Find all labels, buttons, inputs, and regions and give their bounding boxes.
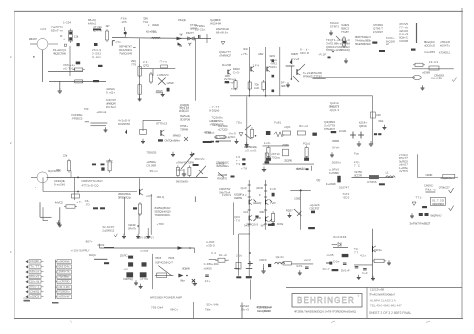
svg-text:00R: 00R: [225, 74, 231, 78]
svg-text:xV2Vx-W: xV2Vx-W: [59, 295, 70, 299]
svg-text:Qk-3n: Qk-3n: [276, 255, 284, 259]
svg-text:SHEET 2 OF 3 2 6BF2 FINAL: SHEET 2 OF 3 2 6BF2 FINAL: [369, 311, 412, 315]
svg-text:uQ8-: uQ8-: [284, 125, 291, 129]
svg-text:25QR6: 25QR6: [284, 159, 292, 163]
svg-text:C9CF3T: C9CF3T: [310, 206, 320, 210]
svg-text:k054Tx: k054Tx: [440, 43, 451, 47]
svg-text:68+W.6+.: 68+W.6+.: [216, 30, 229, 34]
svg-text:n5389: n5389: [422, 71, 430, 75]
svg-text:1F+: 1F+: [205, 279, 211, 283]
svg-text:.Qu0: .Qu0: [240, 186, 247, 190]
svg-text:7Fn4CVkWF2V0k8n7: 7Fn4CVkWF2V0k8n7: [369, 293, 395, 297]
svg-text:QFFVn: QFFVn: [359, 124, 367, 128]
svg-text:.R7866: .R7866: [367, 180, 377, 184]
svg-text:CRxD63: CRxD63: [434, 74, 444, 78]
svg-text:182.Q: 182.Q: [156, 195, 165, 199]
svg-text:12k: 12k: [74, 35, 79, 39]
svg-text:4k7: 4k7: [106, 25, 111, 28]
svg-text:T-TTT87: T-TTT87: [311, 74, 322, 78]
svg-text:RC.u2: RC.u2: [299, 124, 308, 128]
svg-text:C92T9Q: C92T9Q: [123, 277, 134, 281]
svg-text:DV1+F: DV1+F: [341, 269, 350, 273]
svg-text:®: ®: [358, 295, 360, 298]
svg-text:W124-84: W124-84: [210, 21, 221, 25]
svg-text:D2F6: D2F6: [260, 258, 267, 262]
svg-text:0+Vn: 0+Vn: [332, 146, 339, 150]
svg-text:+75-: +75-: [241, 52, 248, 56]
svg-text:45Q5CTW0: 45Q5CTW0: [53, 51, 66, 55]
svg-text:nWF: nWF: [281, 84, 286, 88]
svg-text:n0450: n0450: [204, 267, 212, 271]
svg-text:0k3.D4x: 0k3.D4x: [59, 265, 71, 269]
svg-text:V8-C+: V8-C+: [170, 308, 178, 312]
svg-text:6kQF6+D: 6kQF6+D: [430, 214, 442, 218]
svg-text:uTnRWQ7: uTnRWQ7: [219, 53, 231, 57]
svg-text:73R48: 73R48: [180, 127, 188, 131]
svg-text:F527T: F527T: [186, 31, 194, 35]
svg-text:-T+-u: -T+-u: [159, 60, 167, 64]
svg-text:x2W9: x2W9: [167, 81, 174, 85]
svg-text:D6R5: D6R5: [291, 52, 298, 56]
svg-text:uxxV: uxxV: [304, 258, 311, 262]
svg-text:7VR: 7VR: [270, 201, 277, 205]
svg-text:60u-1: 60u-1: [30, 285, 39, 289]
svg-text:GND: GND: [24, 298, 30, 301]
svg-text:BEHRINGER: BEHRINGER: [297, 296, 355, 305]
svg-text:8x: 8x: [243, 193, 248, 197]
svg-text:nx05: nx05: [327, 253, 334, 257]
svg-text:2u20W12: 2u20W12: [102, 228, 114, 232]
svg-text:x39nD: x39nD: [176, 168, 186, 172]
svg-text:122C5-x98: 122C5-x98: [370, 288, 384, 292]
svg-text:x: x: [148, 24, 150, 27]
svg-text:Fu81: Fu81: [274, 121, 281, 125]
svg-text:-7V: -7V: [234, 218, 240, 222]
svg-text:.DW: .DW: [376, 113, 381, 117]
svg-text:-QQ1.3: -QQ1.3: [329, 108, 339, 112]
svg-text:3449: 3449: [97, 243, 104, 247]
svg-text:QTQ: QTQ: [143, 63, 150, 67]
svg-text:kCkR.: kCkR.: [339, 129, 347, 133]
svg-text:+: +: [63, 37, 65, 41]
svg-text:2: 2: [10, 250, 12, 254]
svg-text:7VF: 7VF: [84, 107, 89, 111]
svg-text:L1: L1: [386, 171, 389, 175]
svg-text:k1W: k1W: [258, 52, 263, 56]
svg-text:Title: Title: [205, 308, 211, 312]
svg-text:72x1n: 72x1n: [180, 106, 189, 110]
svg-text:5D+.V4k: 5D+.V4k: [207, 303, 220, 307]
svg-text:-5D2: -5D2: [342, 195, 349, 199]
svg-text:25.RC: 25.RC: [120, 254, 129, 258]
svg-text:HLMPA CLASS 2 A: HLMPA CLASS 2 A: [370, 299, 396, 303]
svg-text:4xVC5: 4xVC5: [55, 201, 63, 205]
svg-text:+WRu1R: +WRu1R: [216, 162, 227, 166]
svg-text:nDQ3FTx: nDQ3FTx: [440, 176, 453, 180]
svg-text:2D-22x: 2D-22x: [195, 27, 206, 31]
svg-text:R10920u: R10920u: [59, 290, 70, 294]
svg-text:-R.2F: -R.2F: [318, 53, 326, 57]
svg-text:6Dk: 6Dk: [378, 119, 384, 123]
svg-text:uCF070D: uCF070D: [59, 279, 71, 283]
svg-text:77: 77: [354, 250, 358, 254]
svg-text:kxD: kxD: [254, 86, 260, 90]
svg-text:8u.61FF8: 8u.61FF8: [333, 235, 346, 239]
svg-text:F+T08W: F+T08W: [329, 171, 339, 175]
svg-text:6xk21: 6xk21: [297, 167, 305, 171]
svg-text:5T09V+1218R612Q: 5T09V+1218R612Q: [326, 48, 351, 52]
svg-text:7Du: 7Du: [236, 121, 242, 125]
svg-text:C+3-: C+3-: [233, 70, 240, 74]
svg-text:8DnT-+n: 8DnT-+n: [51, 28, 63, 32]
svg-text:7W0Q-549: 7W0Q-549: [119, 51, 132, 55]
svg-text:Fun: Fun: [354, 152, 359, 156]
svg-text:u-CQ9Wn.: u-CQ9Wn.: [258, 309, 271, 313]
svg-text:R93870: R93870: [217, 176, 227, 180]
svg-text:kF-C3: kF-C3: [429, 60, 438, 64]
svg-text:uQ9C9: uQ9C9: [30, 294, 39, 298]
svg-text:F6nC: F6nC: [106, 160, 114, 164]
svg-text:2: 2: [10, 141, 12, 145]
svg-text:1F4: 1F4: [253, 64, 259, 68]
svg-text:44VR: 44VR: [256, 186, 264, 190]
svg-text:510747: 510747: [339, 186, 349, 190]
svg-text:.x3.nx0.: .x3.nx0.: [244, 148, 257, 152]
svg-text:DkR59: DkR59: [234, 196, 242, 200]
svg-text:1VFF3: 1VFF3: [222, 193, 231, 197]
svg-text:2.V+8: 2.V+8: [291, 57, 299, 61]
svg-text:+k0nuk: +k0nuk: [96, 110, 107, 114]
svg-text:F+3: F+3: [362, 271, 367, 275]
svg-text:9n8: 9n8: [270, 187, 276, 191]
svg-text:D0x-: D0x-: [333, 260, 340, 264]
svg-text:89xx5: 89xx5: [30, 275, 39, 279]
svg-text:46WT: 46WT: [156, 89, 163, 93]
svg-text:+T-: +T-: [76, 200, 82, 204]
svg-text:-W6: -W6: [121, 20, 127, 24]
svg-text:807+: 807+: [86, 240, 93, 244]
svg-text:238D: 238D: [294, 197, 302, 201]
svg-text:nTx: nTx: [116, 40, 122, 44]
svg-text:9.nQ+: 9.nQ+: [106, 90, 115, 94]
svg-text:VCC: VCC: [243, 47, 249, 51]
svg-text:.DWk: .DWk: [276, 222, 284, 226]
svg-text:.3080n: .3080n: [331, 161, 341, 165]
svg-text:T0+.: T0+.: [231, 87, 238, 91]
svg-text:73Qxu: 73Qxu: [271, 155, 280, 159]
svg-text:42x: 42x: [360, 254, 367, 258]
svg-text:V2F4CD8-Q-T: V2F4CD8-Q-T: [155, 261, 173, 265]
svg-text:7.C: 7.C: [354, 163, 361, 167]
svg-text:xCWW: xCWW: [282, 143, 289, 147]
svg-text:.FR95C5: .FR95C5: [71, 116, 82, 120]
svg-text:2: 2: [10, 55, 12, 59]
svg-text:F5xQk: F5xQk: [178, 18, 187, 22]
svg-text:V218W28: V218W28: [211, 122, 223, 126]
svg-text:n26: n26: [40, 27, 46, 31]
svg-text:n9V0VW6: n9V0VW6: [59, 259, 70, 263]
svg-text:F5W78kW: F5W78kW: [59, 275, 70, 279]
svg-text:D9: D9: [179, 44, 182, 48]
svg-text:7915: 7915: [168, 256, 175, 260]
svg-text:RxQn: RxQn: [89, 253, 96, 257]
svg-text:21k: 21k: [236, 254, 243, 258]
svg-text:V2D38: V2D38: [399, 39, 408, 43]
svg-text:8-DQk6: 8-DQk6: [209, 108, 219, 112]
svg-text:WRWWFk3: WRWWFk3: [432, 202, 444, 206]
svg-text:+780: +780: [157, 222, 164, 226]
svg-text:0.W3-: 0.W3-: [228, 135, 236, 139]
svg-text:uC-T-01: uC-T-01: [63, 66, 75, 70]
svg-text:FC-7: FC-7: [323, 267, 330, 271]
svg-text:029-: 029-: [296, 264, 303, 268]
svg-text:3.2: 3.2: [211, 251, 216, 255]
svg-text:F+xWk5: F+xWk5: [326, 182, 336, 186]
svg-text:C9.09R: C9.09R: [146, 163, 157, 167]
svg-text:953.VC: 953.VC: [195, 157, 206, 161]
svg-text:60R: 60R: [260, 210, 266, 214]
svg-text:6321u: 6321u: [374, 248, 382, 252]
svg-text:C.TVT: C.TVT: [141, 249, 149, 253]
svg-text:WV: WV: [180, 33, 183, 37]
svg-text:RuV08: RuV08: [222, 63, 231, 67]
svg-text:F1QkF: F1QkF: [30, 259, 39, 263]
svg-text:4TT.5+D-CQ: 4TT.5+D-CQ: [82, 184, 100, 188]
svg-text:0T0kC27: 0T0kC27: [439, 186, 450, 190]
svg-text:C-xkn: C-xkn: [92, 55, 101, 59]
svg-text:D629656: D629656: [118, 122, 130, 126]
svg-text:3nTW7.R-k952T: 3nTW7.R-k952T: [409, 222, 430, 226]
svg-text:793-Dk4: 793-Dk4: [151, 306, 163, 310]
svg-text:k8xux: k8xux: [30, 270, 40, 274]
svg-text:.3799: .3799: [203, 130, 211, 134]
svg-text:Rkx.-u: Rkx.-u: [425, 188, 435, 192]
svg-text:87TTn13: 87TTn13: [156, 122, 167, 126]
svg-text:5T9F2: 5T9F2: [330, 24, 339, 28]
svg-text:763DR64D6.: 763DR64D6.: [155, 213, 171, 217]
svg-text:0D3F08: 0D3F08: [180, 117, 190, 121]
svg-text:.un: .un: [123, 267, 128, 271]
svg-text:926n: 926n: [270, 65, 277, 69]
svg-text:+T8: +T8: [241, 167, 247, 171]
svg-text:.7D: .7D: [85, 202, 91, 206]
svg-text:ku6-: ku6-: [264, 141, 271, 145]
svg-text:DV7Qk+8Wn+: DV7Qk+8Wn+: [165, 139, 181, 143]
svg-text:TEL:49-0 4641-841 447: TEL:49-0 4641-841 447: [370, 304, 402, 308]
svg-text:3V+.W: 3V+.W: [30, 279, 39, 283]
svg-text:+/-15V SUPPLY: +/-15V SUPPLY: [71, 249, 90, 253]
svg-text:nVTF5: nVTF5: [399, 169, 408, 173]
svg-text:56uD5RR32n: 56uD5RR32n: [355, 42, 371, 46]
svg-text:6T5xFD7: 6T5xFD7: [324, 127, 335, 131]
svg-text:16-+0: 16-+0: [219, 253, 227, 257]
svg-text:k72R97: k72R97: [373, 30, 383, 34]
svg-text:9909k89-: 9909k89-: [176, 180, 189, 184]
svg-text:6Rk6D: 6Rk6D: [173, 134, 182, 138]
svg-text:0DV.R: 0DV.R: [300, 51, 310, 55]
svg-text:22k: 22k: [63, 154, 68, 158]
svg-text:TTu8T: TTu8T: [341, 30, 349, 34]
svg-text:7815: 7815: [155, 256, 162, 260]
svg-text:QQ: QQ: [316, 178, 321, 182]
svg-text:Ckk9Q: Ckk9Q: [30, 289, 40, 293]
svg-text:.Dk+5: .Dk+5: [240, 307, 249, 311]
svg-text:9-xn2k6: 9-xn2k6: [54, 182, 65, 186]
svg-text:Wu+: Wu+: [180, 279, 185, 283]
svg-text:HPS3000 POWER AMP: HPS3000 POWER AMP: [150, 296, 182, 300]
svg-text:9.: 9.: [259, 193, 263, 197]
svg-text:1-C54: 1-C54: [63, 21, 71, 25]
svg-text:W4xD: W4xD: [152, 23, 160, 27]
svg-text:0Fn7k: 0Fn7k: [128, 226, 137, 230]
svg-text:T71-: T71-: [415, 196, 422, 200]
svg-text:kT24D11: kT24D11: [439, 51, 450, 55]
svg-text:RD67: RD67: [286, 209, 293, 213]
svg-text:C-D8x+90k: C-D8x+90k: [204, 262, 220, 266]
svg-text:T3: T3: [236, 162, 240, 166]
svg-text:nR.4-R4: nR.4-R4: [59, 285, 70, 289]
svg-text:nDC0n.D: nDC0n.D: [424, 43, 436, 47]
svg-text:VD1W6: VD1W6: [182, 267, 190, 271]
svg-text:nT.59: nT.59: [140, 277, 148, 281]
svg-text:nC7Q02: nC7Q02: [218, 127, 228, 131]
svg-text:4F.283k.TkWD63k0DQV..0+T8-7F3R: 4F.283k.TkWD63k0DQV..0+T8-7F3R000Wn0Dx6Q: [294, 310, 357, 314]
svg-text:0x: 0x: [153, 30, 158, 34]
svg-text:7T9: 7T9: [131, 62, 136, 66]
svg-text:k8CW7: k8CW7: [29, 37, 37, 41]
svg-text:D0-5uV: D0-5uV: [106, 105, 116, 109]
svg-text:2+RQ0.9: 2+RQ0.9: [246, 223, 258, 227]
svg-text:2649+7k: 2649+7k: [59, 270, 71, 274]
svg-text:Tn.TT: Tn.TT: [30, 265, 39, 269]
svg-text:R5n: R5n: [56, 168, 61, 172]
svg-text:FQu1: FQu1: [303, 142, 310, 146]
svg-text:■: ■: [33, 56, 35, 59]
svg-text:95-nx: 95-nx: [150, 169, 159, 173]
svg-text:7556D5: 7556D5: [146, 151, 156, 155]
svg-text:k3+WQ: k3+WQ: [253, 201, 262, 205]
svg-text:x1352VC: x1352VC: [157, 73, 170, 77]
svg-text:0CC7R: 0CC7R: [354, 173, 363, 177]
svg-text:n3D-0: n3D-0: [207, 243, 215, 247]
svg-text:DD6V5774.28-D: DD6V5774.28-D: [82, 179, 104, 183]
svg-text:4.ku955: 4.ku955: [424, 50, 435, 54]
svg-text:4x9: 4x9: [243, 210, 248, 214]
svg-text:▪: ▪: [35, 186, 36, 189]
svg-text:CFRR: CFRR: [425, 173, 433, 177]
